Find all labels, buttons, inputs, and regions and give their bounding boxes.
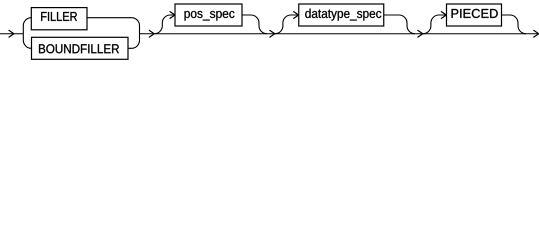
arrow into pos_spec	[170, 11, 175, 18]
wire split vertical with arcs to FILLER and BOUNDFILLER	[23, 18, 31, 49]
box keyword BOUNDFILLER	[32, 37, 129, 59]
box datatype_spec	[299, 4, 384, 26]
box pos_spec	[175, 4, 242, 26]
wire branch up to pos_spec	[154, 15, 175, 34]
label pos_spec	[184, 11, 234, 21]
box keyword PIECED	[447, 4, 502, 26]
box keyword FILLER	[31, 8, 87, 30]
wire FILLER exit and merge vertical and BOUNDFILLER exit	[87, 18, 140, 49]
label FILLER	[41, 12, 77, 21]
arrow after FILLER merge	[149, 30, 154, 37]
wire branch up to PIECED	[423, 15, 447, 34]
label BOUNDFILLER	[39, 44, 119, 53]
arrow junction before datatype_spec	[270, 30, 275, 37]
wire branch up to datatype_spec	[275, 15, 299, 34]
label datatype_spec	[305, 9, 381, 21]
wire PIECED exit down	[502, 15, 527, 34]
arrow junction before PIECED	[418, 30, 423, 37]
arrow end of line	[533, 30, 538, 37]
wire datatype_spec exit down	[384, 15, 415, 34]
wire main bypass line	[140, 33, 539, 35]
label PIECED	[452, 9, 498, 18]
arrow into PIECED	[441, 11, 446, 18]
arrow entry	[9, 30, 14, 37]
wire pos_spec exit down	[242, 15, 267, 34]
arrow into datatype_spec	[293, 11, 298, 18]
wire entry main line	[0, 33, 23, 35]
